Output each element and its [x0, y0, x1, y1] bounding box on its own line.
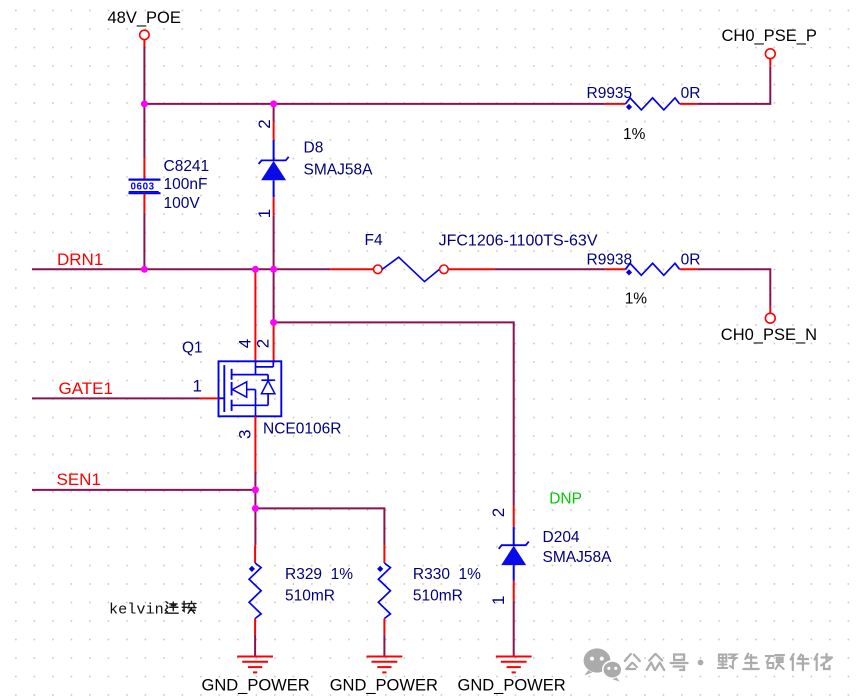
- pin wire D8 pin1: [273, 197, 275, 215]
- watermark middle dot: [698, 660, 704, 666]
- pin number 3 (Q1): [235, 430, 254, 439]
- note hanzi jie (接): [182, 601, 196, 613]
- terminal CH0_PSE_N: [765, 313, 775, 323]
- svg-text:GND_POWER: GND_POWER: [202, 677, 310, 695]
- pin wire R329 pin2: [254, 619, 256, 635]
- wire node to D204 branch: [274, 322, 514, 505]
- pin wire R330 pin2: [383, 619, 385, 635]
- wire F4 to R9938: [494, 268, 605, 270]
- svg-text:4: 4: [235, 339, 254, 348]
- wire SEN1: [32, 489, 255, 491]
- transistor Q1 body: [219, 361, 282, 416]
- pin1 marker R9938: [626, 269, 632, 275]
- pin wire R9938 pin2: [680, 268, 698, 270]
- pin wire D8 pin2: [273, 122, 275, 140]
- svg-text:1%: 1%: [623, 126, 646, 143]
- wire to CH0_PSE_N: [698, 269, 771, 307]
- svg-text:JFC1206-1100TS-63V: JFC1206-1100TS-63V: [439, 232, 598, 249]
- svg-text:DRN1: DRN1: [57, 250, 103, 269]
- svg-text:GND_POWER: GND_POWER: [330, 677, 438, 695]
- resistor R329: [249, 563, 261, 619]
- label SMAJ58A (D204): [543, 549, 613, 566]
- label F4: [365, 232, 383, 249]
- node junction DRN1-D8: [270, 266, 277, 273]
- svg-text:1: 1: [489, 596, 508, 605]
- wire D8 branch to node: [273, 269, 275, 322]
- svg-text:0603: 0603: [131, 182, 155, 193]
- svg-text:F4: F4: [365, 232, 383, 249]
- svg-text:48V_POE: 48V_POE: [108, 9, 181, 27]
- svg-text:510mR: 510mR: [285, 588, 335, 605]
- note hanzi lian (连): [165, 602, 178, 613]
- diode D8 body: [259, 140, 289, 197]
- wire DRN1: [32, 268, 330, 270]
- wire node to node: [254, 490, 256, 509]
- net label GATE1: [59, 379, 113, 398]
- svg-text:100nF: 100nF: [164, 176, 208, 193]
- pin wire D204 pin1: [513, 581, 515, 601]
- svg-text:100V: 100V: [164, 195, 201, 212]
- wire node to R329: [254, 508, 256, 545]
- svg-text:3: 3: [235, 430, 254, 439]
- pin wire C8241 pin2: [143, 194, 145, 214]
- svg-text:SMAJ58A: SMAJ58A: [304, 162, 374, 179]
- pin wire Q1 pin2: [273, 322, 275, 361]
- watermark hanzi ye (野): [718, 655, 736, 669]
- node junction (274,104): [270, 100, 277, 107]
- watermark hanzi ying (硬): [766, 655, 785, 669]
- pin wire R330 pin1: [383, 545, 385, 563]
- label NCE0106R: [263, 421, 341, 438]
- pin1 marker R330: [377, 566, 383, 572]
- svg-text:0R: 0R: [681, 252, 701, 269]
- label R330 1%: [413, 566, 481, 583]
- wire node to R330 branch: [255, 508, 384, 545]
- label DNP: [549, 491, 582, 508]
- label R9935: [587, 85, 633, 102]
- wire pin3 to SEN1 node: [254, 472, 256, 490]
- watermark wechat icon: [584, 648, 622, 681]
- resistor R330: [378, 563, 390, 619]
- wire C8241 to DRN1: [143, 213, 145, 270]
- pin wire Q1 pin1 (gate): [199, 397, 219, 399]
- label 510mR (R329): [285, 588, 335, 605]
- watermark hanzi zhong (众): [647, 654, 665, 670]
- node junction DRN1-Q1d: [252, 266, 259, 273]
- pin wire F4 pin1: [330, 268, 373, 270]
- svg-text:R9935: R9935: [587, 85, 633, 102]
- svg-text:CH0_PSE_P: CH0_PSE_P: [722, 27, 817, 45]
- label D204: [543, 529, 580, 546]
- pin wire CH0_PSE_P: [769, 59, 771, 67]
- node junction DRN1-48V: [141, 266, 148, 273]
- label 0603: [129, 182, 159, 193]
- svg-text:GATE1: GATE1: [59, 379, 113, 398]
- wire 48V_POE vertical: [143, 47, 145, 158]
- fuse F4: [374, 257, 449, 281]
- port CH0_PSE_N label: [721, 326, 817, 344]
- label R329 1%: [285, 566, 353, 583]
- svg-text:SMAJ58A: SMAJ58A: [543, 549, 613, 566]
- svg-text:D204: D204: [543, 529, 580, 546]
- resistor R9938: [626, 263, 680, 275]
- svg-text:2: 2: [254, 339, 273, 348]
- pin wire CH0_PSE_N: [769, 307, 771, 313]
- wire GATE1: [32, 397, 199, 399]
- label 510mR (R330): [413, 588, 463, 605]
- pin wire R9935 pin2: [680, 103, 698, 105]
- pin number 1 (D8): [255, 209, 274, 218]
- diode D204 body: [499, 527, 529, 581]
- node junction SEN1: [252, 486, 259, 493]
- pin wire R9938 pin1: [605, 268, 626, 270]
- terminal 48V_POE: [140, 30, 149, 47]
- label 0R (R9935): [681, 85, 701, 102]
- svg-text:C8241: C8241: [164, 158, 210, 175]
- pin number 4 (Q1): [235, 339, 254, 348]
- node junction (255,508): [252, 505, 259, 512]
- svg-text:GND_POWER: GND_POWER: [458, 677, 566, 695]
- svg-text:kelvin: kelvin: [109, 601, 164, 619]
- ground GND_POWER (left): [237, 657, 273, 673]
- value labels C8241: [164, 158, 210, 212]
- ground GND_POWER (middle): [367, 657, 403, 673]
- node junction (144,104): [141, 100, 148, 107]
- net label SEN1: [57, 470, 101, 489]
- label 0R (R9938): [681, 252, 701, 269]
- svg-text:DNP: DNP: [549, 491, 582, 508]
- svg-text:D8: D8: [304, 140, 324, 157]
- net label DRN1: [57, 250, 103, 269]
- svg-text:1: 1: [193, 376, 202, 395]
- pin number 1 (Q1): [193, 376, 202, 395]
- label SMAJ58A (D8): [304, 162, 374, 179]
- watermark hanzi lao (佬): [815, 654, 833, 670]
- watermark hanzi gong (公): [625, 654, 640, 669]
- wire D8 to DRN1: [273, 215, 275, 270]
- svg-text:NCE0106R: NCE0106R: [263, 421, 341, 438]
- watermark hanzi hao (号): [671, 655, 688, 671]
- pin number 2 (Q1): [254, 339, 273, 348]
- note kelvin connection: [109, 601, 164, 619]
- resistor R9935: [626, 98, 680, 110]
- pin wire C8241 pin1: [143, 158, 145, 179]
- pin wire Q1 pin4 (drain): [254, 269, 256, 361]
- pin wire Q1 pin3 (source): [254, 416, 256, 472]
- svg-text:R9938: R9938: [587, 252, 633, 269]
- svg-text:2: 2: [255, 119, 274, 128]
- pin number 1 (D204): [489, 596, 508, 605]
- terminal CH0_PSE_P: [765, 49, 775, 59]
- pin1 marker R329: [249, 566, 255, 572]
- label Q1: [182, 340, 203, 357]
- pin wire R329 pin1: [254, 545, 256, 563]
- pin1 marker R9935: [626, 104, 632, 110]
- svg-text:1: 1: [255, 209, 274, 218]
- pin wire F4 pin2: [448, 268, 494, 270]
- watermark hanzi sheng (生): [743, 654, 759, 670]
- wire R330 to ground: [383, 635, 385, 657]
- port GND_POWER label (middle): [330, 677, 438, 695]
- port GND_POWER label (right): [458, 677, 566, 695]
- pin number 2 (D204): [489, 508, 508, 517]
- label JFC1206-1100TS-63V: [439, 232, 598, 249]
- svg-text:510mR: 510mR: [413, 588, 463, 605]
- port CH0_PSE_P label: [722, 27, 817, 45]
- capacitor C8241: [129, 180, 161, 194]
- wire R329 to ground: [254, 635, 256, 657]
- svg-text:R329 1%: R329 1%: [285, 566, 353, 583]
- ground GND_POWER (right): [496, 657, 532, 673]
- svg-text:Q1: Q1: [182, 340, 203, 357]
- svg-text:0R: 0R: [681, 85, 701, 102]
- node junction (274,322): [270, 319, 277, 326]
- svg-text:R330 1%: R330 1%: [413, 566, 481, 583]
- watermark hanzi jian (件): [791, 654, 809, 670]
- label R9938: [587, 252, 633, 269]
- label 1% (R9935): [623, 126, 646, 143]
- pin wire R9935 pin1: [605, 103, 626, 105]
- svg-text:2: 2: [489, 508, 508, 517]
- label 1% (R9938): [625, 291, 648, 308]
- pin number 2 (D8): [255, 119, 274, 128]
- svg-text:CH0_PSE_N: CH0_PSE_N: [721, 326, 817, 344]
- port GND_POWER label (left): [202, 677, 310, 695]
- port 48V_POE label: [108, 9, 181, 27]
- svg-text:1%: 1%: [625, 291, 648, 308]
- wire D204 to ground: [513, 600, 515, 656]
- wire D8 branch upper: [273, 104, 275, 122]
- pin wire D204 pin2: [513, 505, 515, 527]
- wire to CH0_PSE_P: [698, 67, 771, 104]
- label D8: [304, 140, 324, 157]
- wire top horizontal: [143, 103, 605, 105]
- svg-text:SEN1: SEN1: [57, 470, 101, 489]
